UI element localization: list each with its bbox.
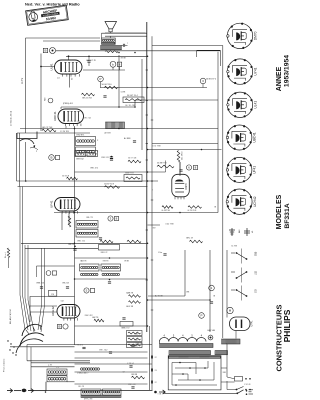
- svg-text:DM70: DM70: [185, 183, 188, 190]
- circle P bottom: [199, 313, 205, 319]
- wire UL41 cathode: [69, 74, 71, 88]
- potentiometer P1: [98, 76, 104, 82]
- resistor box R16: [87, 151, 98, 157]
- svg-text:c: c: [127, 43, 129, 45]
- wire UDC41 cathode drop: [65, 126, 67, 129]
- legend capacitor symbol 2: [246, 228, 248, 236]
- mains plug box: [168, 356, 221, 390]
- wire vertical x210: [209, 250, 211, 332]
- coil L5: [81, 368, 83, 370]
- svg-text:#41 #F10: #41 #F10: [182, 151, 184, 160]
- resistor R13: [128, 160, 141, 163]
- box P4: [49, 290, 57, 296]
- socket UBC41: [227, 125, 252, 150]
- legend switch E85: [231, 252, 235, 254]
- svg-text:GAR 78: GAR 78: [126, 292, 134, 295]
- capacitor C72 on x152: [150, 369, 152, 372]
- svg-text:# 23 #4: # 23 #4: [127, 363, 135, 365]
- coil L23: [81, 273, 83, 275]
- wire y364: [75, 363, 153, 365]
- svg-text:UCH42: UCH42: [51, 306, 55, 316]
- coil box L21: [80, 264, 100, 271]
- svg-text:GR CP 708: GR CP 708: [42, 127, 53, 129]
- svg-text:GR 207 7K: GR 207 7K: [86, 60, 97, 62]
- IF transformer box S5: [76, 221, 98, 229]
- wire UY41 top: [226, 316, 228, 318]
- capacitor C50: [108, 281, 111, 283]
- svg-text:C#m: C#m: [158, 252, 163, 254]
- wire bus y300: [148, 299, 210, 301]
- wire y393 to mains: [164, 392, 237, 394]
- svg-text:#98# #F2: #98# #F2: [85, 315, 93, 317]
- socket UL41: [227, 92, 252, 117]
- resistor R19: [105, 186, 120, 189]
- wire right vertical outer: [222, 46, 224, 339]
- capacitor C20: [87, 60, 90, 62]
- coil L24: [102, 273, 104, 275]
- wire antenna y344: [27, 344, 152, 346]
- terminal pair 38: [108, 216, 113, 221]
- transformer secondary bar: [160, 344, 214, 348]
- resistor R25: [188, 206, 202, 209]
- IF transformer box S3: [76, 137, 96, 146]
- svg-text:UY41: UY41: [251, 320, 254, 327]
- wire stub y225: [148, 224, 161, 226]
- svg-text:#1: #1: [252, 230, 254, 233]
- resistor R28: [100, 240, 113, 243]
- svg-text:G 29 70 8: G 29 70 8: [188, 210, 198, 212]
- wire choke down: [226, 344, 228, 378]
- svg-text:#98 213: #98 213: [62, 283, 69, 285]
- svg-text:0 #2 7 88: 0 #2 7 88: [153, 146, 161, 148]
- svg-text:AM: AM: [238, 230, 241, 233]
- coil box L6: [81, 389, 101, 395]
- svg-text:#98# #21: #98# #21: [77, 241, 85, 243]
- wire bus y258: [75, 257, 148, 259]
- svg-text:UCH42: UCH42: [253, 196, 257, 207]
- ground arrow mid: [154, 391, 157, 394]
- band switch wafer arcs: [22, 324, 42, 336]
- svg-text:NVHR: NVHR: [46, 16, 57, 21]
- wire vertical x119: [118, 55, 120, 107]
- transformer primary bar b: [215, 351, 228, 355]
- svg-text:#98 #71: #98 #71: [86, 217, 93, 219]
- svg-text:b: b: [112, 62, 114, 66]
- wire y361: [27, 360, 90, 362]
- svg-text:# 82: # 82: [134, 340, 138, 342]
- wire bus y128: [20, 128, 218, 130]
- svg-text:#2: #2: [155, 357, 157, 359]
- wire bus y212: [54, 212, 218, 214]
- wire vertical x142: [141, 59, 143, 150]
- wire bus y87: [100, 87, 207, 89]
- svg-text:#4 98: #4 98: [121, 92, 126, 94]
- svg-text:BF331A: BF331A: [284, 203, 291, 228]
- svg-text:4: 4: [182, 335, 184, 338]
- wire vertical x152: [151, 36, 153, 390]
- primary winding T2: [101, 46, 122, 50]
- oscillator frame: [30, 297, 75, 323]
- svg-text:P: P: [200, 314, 202, 318]
- circle 1: [209, 285, 215, 291]
- wire UY41 to choke: [235, 331, 237, 339]
- wire plug lower right: [221, 381, 235, 383]
- filter choke: [222, 339, 241, 344]
- svg-text:# 98: # 98: [134, 346, 138, 348]
- svg-text:3: 3: [202, 79, 204, 83]
- svg-text:#98# 4#2: #98# 4#2: [90, 168, 98, 170]
- svg-text:A# 888: A# 888: [124, 137, 131, 140]
- wire UDC41 anode stub: [60, 107, 62, 109]
- wire y367: [31, 366, 75, 368]
- output transformer T2: [102, 38, 116, 44]
- box R37: [120, 322, 133, 327]
- mains prongs: [246, 390, 248, 392]
- svg-text:B: B: [44, 49, 46, 53]
- wire bus y100: [135, 99, 218, 101]
- svg-text:#88 98: #88 98: [131, 374, 138, 376]
- terminal pair 68: [186, 165, 191, 170]
- switch wires slanted: [20, 187, 25, 331]
- svg-text:56 007 910: 56 007 910: [102, 84, 113, 86]
- IF transformer box S6: [76, 230, 98, 238]
- tube UDC41: [58, 109, 84, 124]
- resistor R50: [132, 376, 145, 379]
- svg-text:#8: #8: [214, 207, 216, 209]
- resistor box R18: [124, 175, 142, 182]
- legend switch L52: [231, 271, 235, 273]
- svg-text:#9# #8: #9# #8: [78, 386, 84, 388]
- svg-text:#AR 78: #AR 78: [80, 260, 86, 263]
- svg-text:8: 8: [195, 166, 197, 170]
- wire left frame vertical: [25, 38, 27, 133]
- svg-text:5: 5: [86, 289, 88, 293]
- wire tie x31: [30, 347, 32, 391]
- tube UCH42: [57, 305, 80, 319]
- svg-text:L52: L52: [255, 270, 258, 275]
- svg-text:U Max 400 #: U Max 400 #: [77, 373, 89, 375]
- osc wire y312: [30, 311, 57, 313]
- IF transformer box S4: [76, 147, 96, 156]
- hatched winding S2a: [106, 122, 125, 129]
- svg-text:GHL 19: GHL 19: [186, 238, 194, 240]
- wire bus y243: [21, 242, 148, 244]
- wire vertical x149: [149, 326, 151, 390]
- svg-text:#8#: #8#: [153, 228, 157, 230]
- svg-text:UL41: UL41: [49, 63, 53, 71]
- wire bus y143: [152, 143, 218, 145]
- svg-text:#988 #13: #988 #13: [36, 283, 44, 285]
- wire UL41 cathode left: [41, 66, 55, 68]
- svg-text:#2: #2: [155, 382, 157, 384]
- svg-text:#2: #2: [123, 372, 125, 374]
- svg-text:B: B: [50, 156, 52, 160]
- wire AVC bus y181: [17, 180, 159, 182]
- svg-text:56 88 97 8: 56 88 97 8: [157, 163, 167, 165]
- wire bus y279: [75, 278, 148, 280]
- wire y372: [75, 371, 148, 373]
- osc section frame: [37, 265, 75, 267]
- svg-text:1953/1954: 1953/1954: [284, 55, 291, 87]
- wire y358: [75, 357, 148, 359]
- resistor rack R41: [127, 337, 143, 342]
- svg-text:#888###2: #888###2: [121, 328, 129, 330]
- svg-text:# 52 #8: # 52 #8: [244, 384, 250, 386]
- svg-text:5: 5: [191, 335, 193, 338]
- capacitor C73 on x152: [150, 381, 152, 384]
- wire vertical x227: [226, 250, 228, 316]
- wafer radial ticks: [26, 330, 29, 334]
- wire tie x27: [26, 345, 28, 361]
- resistor R26: [68, 216, 71, 227]
- wire DM70 stem: [179, 162, 181, 176]
- capacitor across T2: [122, 44, 124, 47]
- coil box L7: [103, 389, 122, 395]
- wire vertical x69: [68, 213, 70, 226]
- resistor R33: [129, 295, 141, 298]
- svg-text:G# 8# 8: G# 8# 8: [62, 176, 70, 178]
- plug box top hatch: [169, 356, 221, 358]
- capacitor C63: [129, 365, 132, 367]
- svg-text:am Band (-40/-4): am Band (-40/-4): [11, 111, 13, 126]
- svg-text:G#B 97 8: G#B 97 8: [125, 173, 134, 175]
- socket DM70: [227, 23, 252, 48]
- fuse box: [235, 377, 243, 382]
- wire frame vertical x41: [40, 54, 42, 132]
- transformer primary bar: [169, 351, 211, 355]
- capacitor C70: [210, 301, 213, 303]
- resistor R20 (vertical): [177, 151, 180, 163]
- antenna arrow symbols: [7, 389, 13, 393]
- resistor R22: [67, 177, 78, 180]
- coil box L22: [101, 264, 121, 271]
- wire b8 stubs: [112, 67, 114, 70]
- svg-text:PHILIPS: PHILIPS: [282, 309, 292, 342]
- wire vertical x135: [134, 100, 136, 107]
- bus tick marks: [146, 69, 148, 71]
- wire y352: [75, 351, 148, 353]
- wire bus y107: [61, 106, 135, 108]
- capacitor C30: [133, 140, 136, 142]
- socket UY41: [227, 59, 252, 84]
- svg-text:Prises antenne: Prises antenne: [3, 358, 6, 372]
- tube UL41: [55, 60, 83, 74]
- svg-text:L1: L1: [57, 367, 60, 369]
- svg-text:GR 24 703: GR 24 703: [82, 98, 93, 100]
- svg-text:B: B: [58, 325, 60, 329]
- svg-text:4: 4: [164, 335, 166, 338]
- svg-text:Ra u d: Ra u d: [5, 252, 7, 258]
- wire bus y296: [148, 295, 185, 297]
- resistor Ra (vertical, far left): [7, 248, 9, 258]
- svg-text:A# 8#8: A# 8#8: [105, 132, 111, 135]
- wire frame top inner: [43, 40, 100, 42]
- mains switch: [236, 389, 238, 391]
- capacitor C71 on x152: [150, 356, 152, 359]
- svg-text:G 437 58: G 437 58: [162, 210, 171, 212]
- wire left vertical x17: [16, 133, 18, 181]
- capacitor C43: [163, 253, 166, 255]
- svg-text:#98: #98: [186, 292, 189, 294]
- svg-text:1: 1: [211, 286, 213, 290]
- svg-text:#4# 9# #83: #4# 9# #83: [125, 105, 136, 107]
- wire frame stub x220: [219, 50, 221, 66]
- svg-text:(P880) 401: (P880) 401: [63, 103, 74, 105]
- junction dots: [118, 52, 120, 54]
- capacitor C55: [122, 317, 125, 319]
- resistor box R15: [75, 151, 86, 157]
- svg-text:#: #: [152, 190, 154, 192]
- antenna coil box L1: [47, 369, 67, 375]
- svg-text:UY41: UY41: [254, 67, 258, 75]
- resistor rack R42: [127, 343, 143, 348]
- wire frame top-left: [26, 37, 101, 39]
- wire speaker to bus: [110, 32, 112, 33]
- osc wire y306: [30, 305, 57, 307]
- wire antenna drop: [45, 382, 47, 391]
- wire y70: [83, 69, 125, 71]
- circle B terminal: [49, 155, 55, 161]
- wire bus y52: [56, 50, 220, 52]
- svg-text:5: 5: [173, 335, 175, 338]
- transformer left lead: [159, 342, 161, 344]
- svg-text:8: 8: [116, 217, 118, 221]
- wire speaker top line: [105, 32, 146, 34]
- wire DM70 top: [179, 162, 181, 174]
- plug box internal wiring: [172, 362, 196, 364]
- terminal pair B: [43, 48, 47, 52]
- svg-text:#98# #12: #98# #12: [101, 157, 110, 159]
- switch contact dots: [7, 340, 8, 341]
- svg-text:ANNEE: ANNEE: [276, 66, 283, 91]
- socket UF41: [227, 157, 252, 182]
- svg-text:GW 78: GW 78: [92, 317, 99, 319]
- capacitor C53: [66, 286, 69, 288]
- wire frame stub x196: [196, 50, 198, 57]
- wire y363: [31, 362, 90, 364]
- wire tuning to AVC: [25, 142, 27, 181]
- resistor R7: [82, 93, 95, 96]
- wire HT bus vertical: [146, 22, 148, 332]
- capacitor C31: [110, 158, 113, 160]
- wire y384: [75, 383, 148, 385]
- wire top-right bus: [152, 45, 223, 47]
- resistor R36: [94, 319, 104, 322]
- capacitor C22: [103, 95, 106, 97]
- mains switch slash: [238, 390, 244, 394]
- box C41: [99, 245, 120, 251]
- svg-text:0 42 7 88: 0 42 7 88: [166, 224, 174, 226]
- terminal pair B2: [57, 324, 61, 328]
- capacitor C61: [109, 351, 112, 353]
- resistor box R10: [123, 97, 144, 103]
- resistor rack R40: [127, 331, 143, 336]
- svg-text:UF41: UF41: [49, 200, 53, 208]
- wire vertical x185: [184, 250, 186, 296]
- capacitor C65: [131, 386, 134, 388]
- svg-text:UL41: UL41: [254, 101, 258, 109]
- svg-text:#42: #42: [61, 301, 64, 303]
- wire vertical x165: [165, 161, 167, 173]
- wire left section vertical x74: [74, 126, 76, 345]
- svg-text:8: 8: [119, 62, 121, 66]
- svg-text:a #8: a #8: [48, 365, 52, 367]
- resistor R5 (top): [105, 50, 118, 52]
- svg-text:#9 88: #9 88: [124, 261, 129, 263]
- svg-text:#98 . #42: #98 . #42: [99, 350, 108, 352]
- capacitor C52: [40, 286, 43, 288]
- svg-text:#982 871: #982 871: [76, 135, 85, 137]
- svg-text:DM70: DM70: [254, 31, 258, 40]
- wire bottom y390: [46, 390, 153, 392]
- svg-text:i: i: [36, 149, 37, 153]
- svg-text:G98 812: G98 812: [76, 159, 85, 161]
- svg-text:50: 50: [72, 77, 74, 80]
- svg-text:#88 ##2: #88 ##2: [101, 252, 108, 254]
- node 3: [200, 78, 206, 84]
- wire bus y326: [75, 325, 148, 327]
- svg-text:G# 7# 18: G# 7# 18: [128, 158, 137, 160]
- svg-text:BR, AR, FM, LW: BR, AR, FM, LW: [9, 309, 12, 324]
- svg-text:2: 2: [97, 140, 99, 142]
- svg-text:P: P: [99, 77, 101, 81]
- svg-text:#R 88: #R 88: [121, 58, 126, 60]
- svg-text:UF41: UF41: [253, 166, 257, 174]
- svg-text:#3: #3: [155, 370, 157, 372]
- svg-text:56 88 197 0: 56 88 197 0: [206, 79, 216, 81]
- terminal pair osc: [46, 271, 51, 276]
- wire left vertical x19: [19, 133, 21, 187]
- capacitor C60: [82, 346, 85, 348]
- svg-text:MODELES: MODELES: [276, 194, 283, 229]
- legend capacitor symbol 1: [231, 228, 233, 236]
- svg-text:#98 78: #98 78: [103, 261, 109, 263]
- svg-text:#98 - #4: #98 - #4: [128, 384, 136, 386]
- capacitor C33: [110, 156, 113, 158]
- svg-text:#88: #88: [223, 372, 226, 374]
- pilot lamp M: [227, 307, 233, 313]
- svg-text:6: 6: [188, 166, 190, 170]
- wire UL41 anode: [68, 56, 70, 60]
- svg-text:#73 4#1: #73 4#1: [76, 345, 84, 347]
- svg-text:117 V: 117 V: [21, 78, 24, 84]
- svg-text:# 88: # 88: [134, 334, 138, 336]
- antenna coil box L2: [47, 376, 67, 382]
- wire bus y56: [66, 55, 148, 57]
- svg-text:C# 24 703: C# 24 703: [60, 131, 69, 133]
- svg-text:#1 #98: #1 #98: [231, 246, 237, 248]
- DM70 pin stubs: [174, 197, 176, 200]
- speaker LS: [105, 22, 117, 29]
- svg-text:P4: P4: [51, 294, 54, 296]
- wire bus y133: [17, 132, 90, 134]
- svg-text:#9# #12: #9# #12: [84, 118, 91, 120]
- wire bus y248: [25, 247, 98, 249]
- terminal pair 5: [84, 288, 89, 293]
- thermistor: [208, 335, 213, 340]
- svg-text:E85: E85: [255, 251, 258, 256]
- svg-text:# #8: # #8: [158, 394, 162, 396]
- transformer scallops: [160, 338, 207, 342]
- svg-text:G4 87 70 8: G4 87 70 8: [104, 184, 115, 186]
- legend switch GO: [231, 289, 235, 291]
- socket UCH42: [227, 189, 252, 214]
- hatch under coils: [81, 396, 121, 398]
- svg-text:GO: GO: [255, 289, 258, 293]
- wire antenna y346: [10, 346, 75, 348]
- capacitor C46: [73, 248, 76, 250]
- svg-text:56 507 19 4: 56 507 19 4: [127, 95, 138, 97]
